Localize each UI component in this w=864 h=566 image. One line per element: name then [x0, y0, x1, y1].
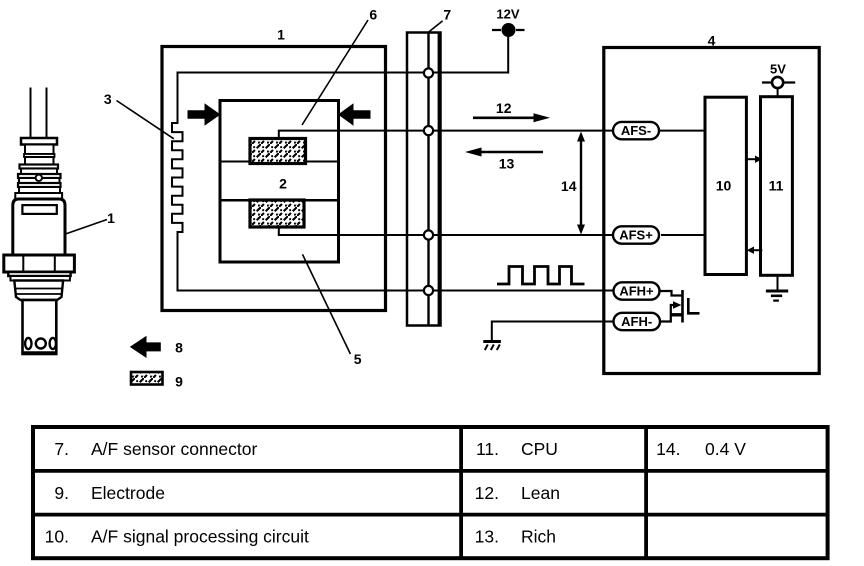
svg-text:13.: 13. [475, 527, 499, 547]
svg-text:12V: 12V [496, 6, 519, 21]
svg-text:9: 9 [175, 374, 183, 390]
svg-text:0.4 V: 0.4 V [705, 439, 746, 459]
svg-text:4: 4 [708, 32, 716, 48]
svg-text:AFH+: AFH+ [619, 283, 654, 298]
svg-text:Lean: Lean [521, 483, 560, 503]
svg-text:1: 1 [277, 27, 285, 43]
svg-text:CPU: CPU [521, 439, 558, 459]
svg-text:9.: 9. [54, 483, 69, 503]
svg-text:10.: 10. [45, 527, 69, 547]
svg-text:A/F sensor connector: A/F sensor connector [91, 439, 257, 459]
svg-text:6: 6 [369, 7, 377, 23]
svg-text:12: 12 [496, 100, 512, 116]
svg-text:Electrode: Electrode [91, 483, 165, 503]
svg-text:14.: 14. [656, 439, 680, 459]
svg-text:5V: 5V [770, 61, 786, 76]
svg-text:AFS+: AFS+ [619, 227, 653, 242]
svg-text:A/F signal processing circuit: A/F signal processing circuit [91, 527, 309, 547]
svg-text:11.: 11. [476, 439, 499, 459]
svg-text:14: 14 [561, 178, 577, 194]
svg-text:7.: 7. [54, 439, 69, 459]
svg-text:1: 1 [107, 210, 115, 226]
svg-text:8: 8 [175, 340, 183, 356]
svg-text:5: 5 [354, 351, 362, 367]
svg-text:10: 10 [716, 178, 732, 194]
svg-text:7: 7 [443, 7, 451, 23]
svg-text:AFH-: AFH- [621, 314, 652, 329]
svg-text:AFS-: AFS- [621, 123, 651, 138]
svg-text:3: 3 [104, 91, 112, 107]
svg-text:13: 13 [499, 156, 515, 172]
svg-text:2: 2 [279, 176, 287, 192]
svg-text:12.: 12. [475, 483, 499, 503]
svg-text:Rich: Rich [521, 527, 556, 547]
svg-text:11: 11 [769, 178, 784, 194]
